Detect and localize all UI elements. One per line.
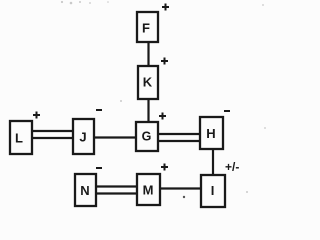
svg-text:L: L [15,131,23,146]
sign + for G [159,113,166,120]
wire F-K [147,42,149,66]
svg-text:J: J [79,130,86,145]
svg-text:I: I [211,183,215,198]
wire J-G [94,136,136,138]
dot between M and I [183,196,185,198]
box J [73,119,94,154]
box M [137,174,160,205]
box L [10,121,32,154]
sign + for K [161,58,168,65]
box G [136,122,158,151]
svg-text:G: G [142,130,152,144]
svg-text:H: H [206,126,215,141]
wire M-I [160,187,201,189]
wire G-H double [158,133,200,135]
wire K-G [147,99,149,122]
sign - for N [96,167,102,169]
wire H-I [212,149,214,175]
wire N-M double [96,185,137,187]
box K [138,66,158,99]
faint scan specks [61,1,266,193]
box I [201,175,225,207]
box F [137,12,158,42]
box H [200,117,223,149]
sign - for J [96,109,102,111]
svg-text:M: M [143,183,154,198]
sign + for L [33,112,40,119]
svg-text:F: F [142,21,150,36]
sign + for F [162,4,169,11]
sign - for H [224,110,230,112]
svg-text:+/-: +/- [225,160,239,174]
sign + for M [161,164,168,171]
wire L-J double [32,130,73,132]
box N [75,174,96,206]
svg-text:K: K [143,75,153,90]
svg-text:N: N [80,183,89,198]
